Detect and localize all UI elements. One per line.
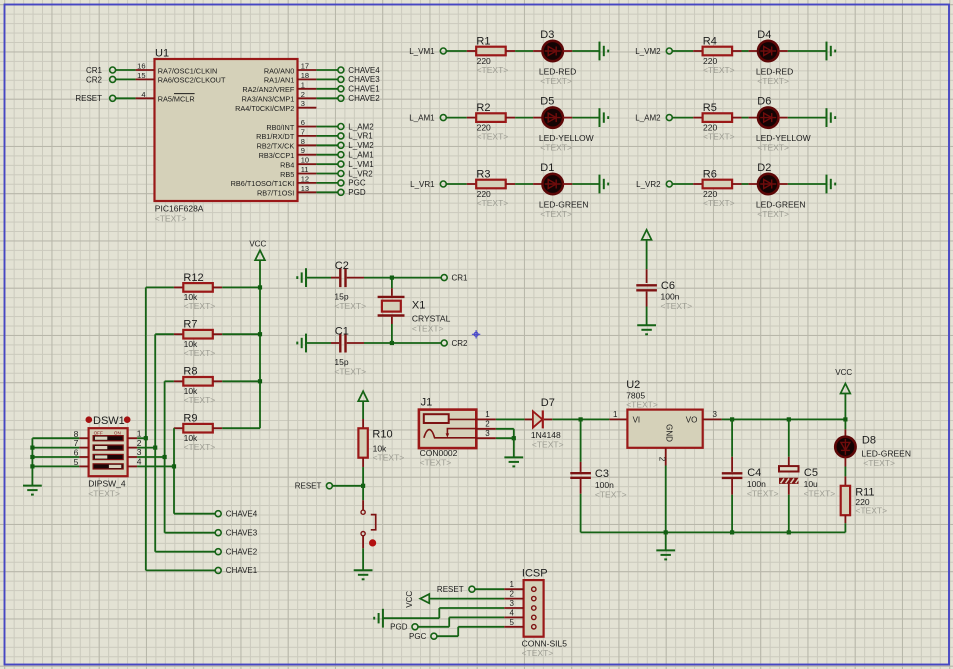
svg-text:2: 2	[301, 90, 305, 99]
svg-text:X1: X1	[412, 300, 425, 312]
svg-text:RA1/AN1: RA1/AN1	[264, 76, 294, 85]
svg-text:<TEXT>: <TEXT>	[184, 348, 216, 358]
svg-text:<TEXT>: <TEXT>	[88, 488, 120, 498]
svg-text:16: 16	[137, 62, 145, 71]
svg-text:L_AM1: L_AM1	[409, 113, 435, 122]
svg-text:CHAVE4: CHAVE4	[348, 66, 380, 75]
svg-text:D2: D2	[757, 162, 771, 174]
svg-text:4: 4	[509, 608, 514, 617]
svg-text:RB5: RB5	[280, 170, 294, 179]
svg-text:C5: C5	[804, 467, 818, 479]
svg-text:L_VM1: L_VM1	[409, 47, 435, 56]
svg-text:D6: D6	[757, 95, 771, 107]
svg-text:D7: D7	[541, 397, 555, 409]
svg-text:L_VR2: L_VR2	[348, 169, 373, 178]
svg-text:CHAVE2: CHAVE2	[348, 94, 380, 103]
svg-text:RA3/AN3/CMP1: RA3/AN3/CMP1	[242, 95, 295, 104]
svg-text:<TEXT>: <TEXT>	[532, 439, 564, 449]
svg-text:R5: R5	[703, 102, 717, 114]
svg-text:R8: R8	[183, 366, 197, 378]
svg-text:R1: R1	[476, 35, 490, 47]
svg-text:L_VM2: L_VM2	[635, 47, 661, 56]
svg-text:<TEXT>: <TEXT>	[863, 458, 895, 468]
svg-text:L_AM2: L_AM2	[348, 122, 374, 131]
svg-text:PGC: PGC	[348, 179, 366, 188]
svg-text:<TEXT>: <TEXT>	[804, 488, 836, 498]
svg-text:PGD: PGD	[390, 623, 408, 632]
svg-text:<TEXT>: <TEXT>	[412, 323, 444, 333]
svg-text:L_VR1: L_VR1	[410, 180, 435, 189]
svg-text:RB3/CCP1: RB3/CCP1	[259, 151, 295, 160]
svg-text:RB6/T1OSO/T1CKI: RB6/T1OSO/T1CKI	[231, 179, 295, 188]
svg-text:R9: R9	[183, 413, 197, 425]
svg-text:RESET: RESET	[295, 482, 322, 491]
svg-text:CON0002: CON0002	[420, 448, 458, 458]
svg-text:L_VM2: L_VM2	[348, 141, 374, 150]
svg-text:<TEXT>: <TEXT>	[855, 506, 887, 516]
svg-text:<TEXT>: <TEXT>	[661, 301, 693, 311]
svg-text:100n: 100n	[661, 292, 680, 302]
svg-text:CR1: CR1	[452, 273, 469, 282]
svg-text:8: 8	[301, 137, 305, 146]
svg-text:CHAVE2: CHAVE2	[226, 548, 258, 557]
svg-text:<TEXT>: <TEXT>	[334, 301, 366, 311]
svg-text:D5: D5	[540, 95, 554, 107]
svg-text:<TEXT>: <TEXT>	[747, 488, 779, 498]
svg-text:RA2/AN2/VREF: RA2/AN2/VREF	[242, 85, 294, 94]
svg-text:18: 18	[301, 71, 309, 80]
svg-text:2: 2	[485, 420, 490, 429]
svg-text:R3: R3	[476, 168, 490, 180]
svg-text:L_AM2: L_AM2	[635, 113, 661, 122]
svg-text:CHAVE1: CHAVE1	[226, 566, 258, 575]
svg-text:CR2: CR2	[86, 75, 103, 84]
svg-text:RB4: RB4	[280, 160, 294, 169]
svg-text:RA5/MCLR: RA5/MCLR	[158, 95, 195, 104]
svg-text:1: 1	[509, 580, 514, 589]
svg-text:DSW1: DSW1	[93, 415, 125, 427]
svg-text:15p: 15p	[334, 357, 348, 367]
svg-text:CHAVE1: CHAVE1	[348, 85, 380, 94]
svg-text:<TEXT>: <TEXT>	[540, 143, 572, 153]
svg-text:11: 11	[301, 165, 309, 174]
svg-text:<TEXT>: <TEXT>	[703, 65, 735, 75]
svg-text:R10: R10	[372, 429, 392, 441]
svg-text:RESET: RESET	[437, 585, 464, 594]
svg-text:3: 3	[713, 410, 718, 419]
svg-text:<TEXT>: <TEXT>	[155, 213, 187, 223]
svg-text:13: 13	[301, 184, 309, 193]
svg-text:<TEXT>: <TEXT>	[757, 76, 789, 86]
svg-text:100n: 100n	[747, 479, 766, 489]
svg-text:R4: R4	[703, 35, 717, 47]
svg-text:U2: U2	[626, 379, 640, 391]
svg-text:<TEXT>: <TEXT>	[540, 209, 572, 219]
svg-text:L_VR2: L_VR2	[636, 180, 661, 189]
svg-text:15p: 15p	[334, 291, 348, 301]
svg-text:CRYSTAL: CRYSTAL	[412, 314, 451, 324]
svg-text:6: 6	[301, 118, 305, 127]
svg-text:1: 1	[613, 410, 618, 419]
svg-text:2: 2	[509, 590, 514, 599]
svg-text:4: 4	[137, 457, 142, 467]
svg-text:VCC: VCC	[405, 591, 414, 608]
svg-text:VCC: VCC	[249, 240, 266, 249]
svg-text:10u: 10u	[804, 479, 818, 489]
svg-text:5: 5	[509, 618, 514, 627]
svg-text:CR2: CR2	[452, 339, 469, 348]
svg-text:RB1/RX/DT: RB1/RX/DT	[256, 132, 295, 141]
svg-text:<TEXT>: <TEXT>	[373, 452, 405, 462]
svg-text:1: 1	[301, 80, 305, 89]
svg-text:12: 12	[301, 174, 309, 183]
svg-text:VCC: VCC	[835, 368, 852, 377]
svg-text:100n: 100n	[595, 480, 614, 490]
svg-text:<TEXT>: <TEXT>	[477, 131, 509, 141]
svg-text:<TEXT>: <TEXT>	[184, 395, 216, 405]
svg-text:<TEXT>: <TEXT>	[757, 209, 789, 219]
svg-text:C6: C6	[661, 280, 675, 292]
svg-text:3: 3	[301, 99, 305, 108]
svg-text:RB0/INT: RB0/INT	[266, 123, 295, 132]
svg-text:<TEXT>: <TEXT>	[420, 458, 452, 468]
svg-text:RESET: RESET	[75, 94, 102, 103]
svg-text:U1: U1	[155, 48, 169, 60]
svg-text:R6: R6	[703, 168, 717, 180]
svg-text:RA7/OSC1/CLKIN: RA7/OSC1/CLKIN	[158, 66, 218, 75]
svg-text:PGC: PGC	[409, 632, 427, 641]
svg-text:3: 3	[485, 429, 490, 438]
svg-text:RA0/AN0: RA0/AN0	[264, 66, 294, 75]
svg-text:C1: C1	[335, 325, 349, 337]
svg-text:<TEXT>: <TEXT>	[522, 648, 554, 658]
svg-text:15: 15	[137, 71, 145, 80]
svg-text:GND: GND	[665, 424, 674, 442]
svg-text:CHAVE3: CHAVE3	[348, 75, 380, 84]
svg-text:R7: R7	[183, 319, 197, 331]
svg-text:<TEXT>: <TEXT>	[184, 301, 216, 311]
svg-text:5: 5	[74, 457, 79, 467]
svg-text:ON: ON	[114, 430, 121, 435]
svg-text:C4: C4	[747, 467, 761, 479]
svg-text:D4: D4	[757, 29, 771, 41]
svg-text:<TEXT>: <TEXT>	[703, 198, 735, 208]
svg-text:ICSP: ICSP	[522, 568, 548, 580]
svg-text:9: 9	[301, 146, 305, 155]
svg-text:<TEXT>: <TEXT>	[540, 76, 572, 86]
svg-text:<TEXT>: <TEXT>	[184, 442, 216, 452]
svg-text:D8: D8	[862, 435, 876, 447]
svg-text:<TEXT>: <TEXT>	[757, 143, 789, 153]
svg-text:J1: J1	[421, 397, 433, 409]
svg-text:4: 4	[141, 90, 145, 99]
svg-text:VO: VO	[686, 415, 698, 424]
svg-text:D1: D1	[540, 162, 554, 174]
svg-text:CR1: CR1	[86, 66, 103, 75]
svg-text:1: 1	[485, 410, 490, 419]
svg-text:R12: R12	[183, 272, 203, 284]
svg-text:RB7/T1OSI: RB7/T1OSI	[257, 189, 294, 198]
svg-text:7: 7	[301, 127, 305, 136]
svg-text:<TEXT>: <TEXT>	[595, 490, 627, 500]
svg-text:<TEXT>: <TEXT>	[626, 400, 658, 410]
svg-text:RB2/TX/CK: RB2/TX/CK	[257, 142, 295, 151]
svg-text:10: 10	[301, 156, 309, 165]
svg-text:<TEXT>: <TEXT>	[703, 131, 735, 141]
svg-text:D3: D3	[540, 29, 554, 41]
svg-text:OFF: OFF	[94, 430, 103, 435]
svg-text:DIPSW_4: DIPSW_4	[88, 478, 126, 488]
svg-text:C2: C2	[335, 260, 349, 272]
svg-text:17: 17	[301, 62, 309, 71]
svg-text:CHAVE4: CHAVE4	[226, 510, 258, 519]
svg-text:L_VR1: L_VR1	[348, 132, 373, 141]
svg-text:PGD: PGD	[348, 188, 366, 197]
svg-text:PIC16F628A: PIC16F628A	[155, 203, 204, 213]
svg-text:2: 2	[658, 457, 667, 462]
svg-text:R2: R2	[476, 102, 490, 114]
svg-text:<TEXT>: <TEXT>	[477, 65, 509, 75]
svg-text:VI: VI	[633, 415, 641, 424]
svg-text:RA4/T0CKI/CMP2: RA4/T0CKI/CMP2	[235, 104, 294, 113]
svg-text:CHAVE3: CHAVE3	[226, 529, 258, 538]
svg-text:<TEXT>: <TEXT>	[334, 367, 366, 377]
svg-text:<TEXT>: <TEXT>	[477, 198, 509, 208]
svg-text:L_VM1: L_VM1	[348, 160, 374, 169]
svg-text:1N4148: 1N4148	[531, 430, 561, 440]
svg-text:L_AM1: L_AM1	[348, 151, 374, 160]
svg-text:3: 3	[509, 599, 514, 608]
svg-text:RA6/OSC2/CLKOUT: RA6/OSC2/CLKOUT	[158, 76, 226, 85]
svg-text:C3: C3	[595, 468, 609, 480]
